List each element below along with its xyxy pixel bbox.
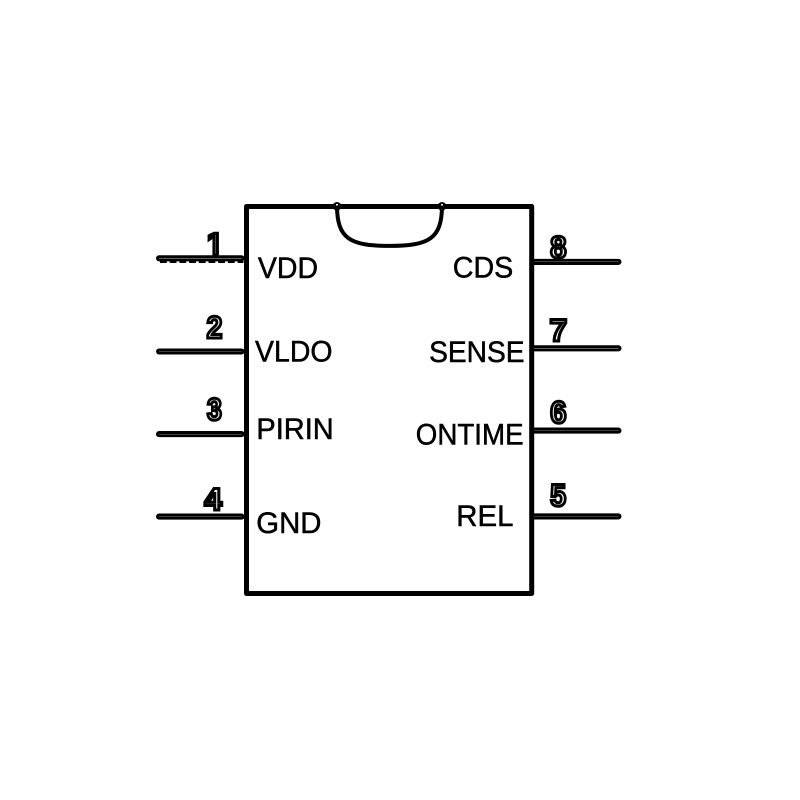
- svg-text:REL: REL: [456, 500, 513, 533]
- svg-text:PIRIN: PIRIN: [256, 413, 333, 446]
- svg-text:2: 2: [207, 309, 223, 345]
- svg-text:VDD: VDD: [258, 252, 318, 285]
- svg-text:7: 7: [550, 312, 568, 348]
- svg-text:GND: GND: [256, 507, 321, 540]
- svg-text:CDS: CDS: [453, 251, 514, 284]
- svg-text:ONTIME: ONTIME: [416, 418, 524, 451]
- svg-text:VLDO: VLDO: [255, 336, 333, 369]
- svg-text:3: 3: [207, 391, 222, 427]
- svg-text:SENSE: SENSE: [429, 336, 524, 369]
- svg-text:6: 6: [550, 394, 566, 430]
- svg-text:5: 5: [550, 477, 566, 513]
- svg-text:4: 4: [204, 481, 222, 517]
- svg-text:8: 8: [550, 229, 566, 265]
